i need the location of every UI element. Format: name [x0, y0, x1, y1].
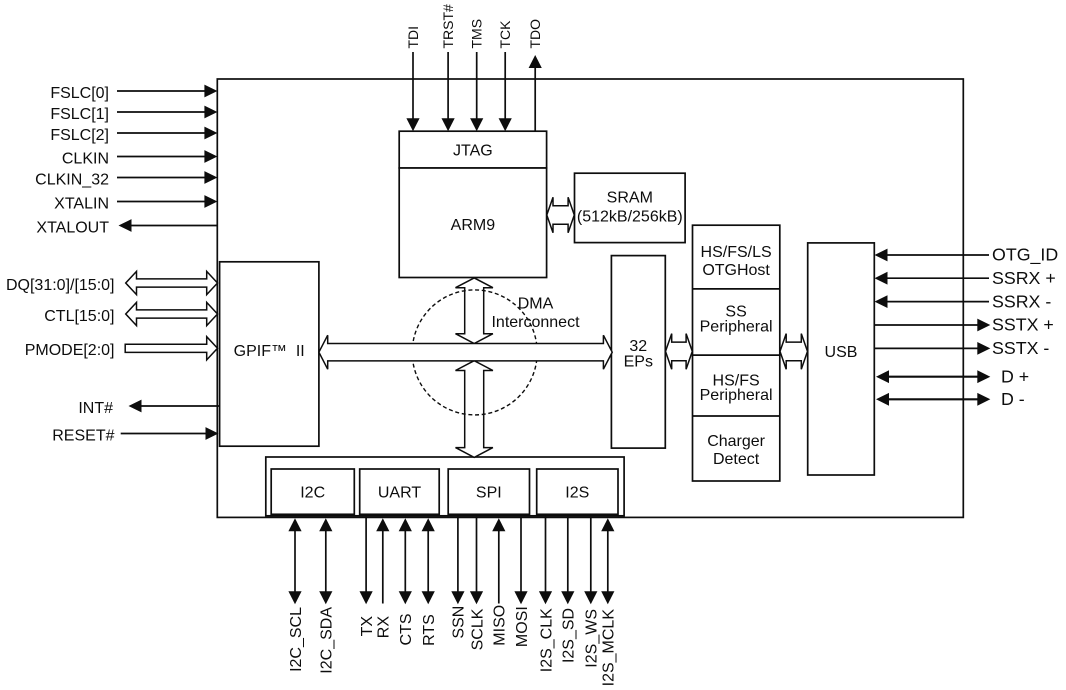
svg-text:D -: D - — [1001, 389, 1025, 409]
svg-text:SSTX +: SSTX + — [992, 315, 1054, 335]
wire D - — [876, 389, 1025, 409]
svg-text:I2S_WS: I2S_WS — [584, 609, 601, 668]
wire SSN — [451, 517, 468, 639]
port CTL[15:0] — [44, 302, 217, 325]
wire D + — [876, 366, 1029, 386]
block USB PHY column — [693, 225, 780, 481]
svg-text:SRAM: SRAM — [607, 189, 653, 206]
wire SSRX - — [875, 291, 1052, 311]
peripherals container — [266, 457, 624, 516]
svg-text:TX: TX — [359, 616, 376, 637]
svg-text:JTAG: JTAG — [453, 142, 493, 159]
svg-text:TCK: TCK — [497, 20, 513, 49]
svg-text:SCLK: SCLK — [469, 608, 486, 650]
chip boundary box — [217, 79, 963, 517]
wire MISO — [492, 518, 509, 645]
block SRAM — [575, 173, 686, 242]
wire XTALIN — [54, 195, 217, 212]
svg-text:OTG_ID: OTG_ID — [992, 245, 1058, 266]
block 32 EPs — [611, 256, 665, 449]
wire RTS — [421, 518, 438, 646]
svg-text:Charger: Charger — [707, 433, 765, 450]
svg-text:FSLC[2]: FSLC[2] — [50, 127, 109, 144]
wire FSLC[2] — [50, 127, 217, 144]
svg-text:Peripheral: Peripheral — [700, 318, 773, 335]
wire I2S_WS — [584, 517, 601, 668]
svg-text:SPI: SPI — [476, 484, 502, 501]
svg-text:CLKIN: CLKIN — [62, 150, 109, 167]
wire OTG_ID — [875, 245, 1059, 266]
block I2C — [271, 469, 354, 514]
svg-text:DMA: DMA — [518, 295, 554, 312]
svg-text:TDI: TDI — [405, 26, 421, 49]
block JTAG — [399, 131, 546, 168]
svg-text:GPIF™ II: GPIF™ II — [234, 343, 305, 360]
wire I2S_MCLK — [601, 518, 618, 686]
svg-text:UART: UART — [378, 484, 421, 501]
wire TRST# — [440, 4, 456, 131]
wire TMS — [469, 19, 485, 131]
bus 32 EPs to USB PHY column — [666, 334, 693, 370]
wire RX — [376, 518, 393, 638]
svg-text:I2C: I2C — [300, 484, 325, 501]
wire INT# — [78, 400, 219, 417]
wire FSLC[0] — [50, 85, 217, 102]
svg-text:ARM9: ARM9 — [451, 217, 496, 234]
wire SSTX + — [875, 315, 1054, 335]
svg-text:MOSI: MOSI — [514, 606, 531, 647]
svg-text:I2C_SCL: I2C_SCL — [288, 607, 305, 672]
svg-text:RTS: RTS — [421, 614, 438, 646]
svg-text:RX: RX — [376, 616, 393, 639]
wire TDI — [405, 26, 421, 131]
svg-text:XTALIN: XTALIN — [54, 195, 109, 212]
svg-text:Peripheral: Peripheral — [700, 387, 773, 404]
wire I2C_SCL — [288, 518, 305, 672]
wire SCLK — [469, 517, 486, 651]
wire FSLC[1] — [50, 106, 217, 123]
svg-text:TDO: TDO — [527, 19, 543, 49]
wire TCK — [497, 20, 513, 131]
svg-text:PMODE[2:0]: PMODE[2:0] — [25, 342, 115, 359]
wire I2C_SDA — [319, 518, 336, 673]
svg-text:TRST#: TRST# — [440, 4, 456, 49]
block ARM9 — [399, 168, 546, 278]
wire SSRX + — [875, 268, 1056, 288]
wire TX — [359, 517, 376, 637]
wire XTALOUT — [36, 219, 217, 236]
wire TDO — [527, 19, 543, 131]
wire I2S_CLK — [538, 517, 555, 672]
svg-text:I2S_MCLK: I2S_MCLK — [601, 609, 618, 687]
svg-text:HS/FS/LS: HS/FS/LS — [701, 244, 772, 261]
svg-text:INT#: INT# — [78, 400, 113, 417]
svg-text:EPs: EPs — [624, 353, 653, 370]
wire CLKIN_32 — [35, 171, 217, 188]
svg-text:OTGHost: OTGHost — [702, 262, 770, 279]
svg-text:USB: USB — [825, 344, 858, 361]
svg-text:SSTX -: SSTX - — [992, 338, 1049, 358]
svg-text:CTL[15:0]: CTL[15:0] — [44, 308, 114, 325]
bus ARM9 to DMA — [456, 278, 493, 344]
svg-text:DQ[31:0]/[15:0]: DQ[31:0]/[15:0] — [6, 277, 115, 294]
block GPIF II — [220, 262, 319, 446]
DMA interconnect dashed circle — [412, 290, 537, 415]
block USB — [808, 243, 875, 475]
svg-text:RESET#: RESET# — [52, 427, 114, 444]
svg-text:CTS: CTS — [398, 614, 415, 646]
wire CLKIN — [62, 150, 218, 167]
svg-text:(512kB/256kB): (512kB/256kB) — [577, 208, 683, 225]
svg-text:I2C_SDA: I2C_SDA — [319, 607, 336, 674]
wire MOSI — [514, 517, 531, 647]
svg-text:CLKIN_32: CLKIN_32 — [35, 171, 109, 188]
svg-text:D +: D + — [1001, 366, 1029, 386]
port PMODE[2:0] — [25, 337, 218, 360]
bus ARM9 to SRAM — [547, 197, 575, 233]
svg-text:FSLC[1]: FSLC[1] — [50, 106, 109, 123]
port DQ[31:0]/[15:0] — [6, 271, 218, 294]
svg-text:FSLC[0]: FSLC[0] — [50, 85, 109, 102]
svg-text:SSRX -: SSRX - — [992, 291, 1051, 311]
svg-text:XTALOUT: XTALOUT — [36, 219, 109, 236]
bus USB PHY column to USB — [780, 334, 808, 370]
block I2S — [537, 469, 618, 514]
svg-text:Detect: Detect — [713, 451, 760, 468]
svg-text:I2S_CLK: I2S_CLK — [538, 608, 555, 672]
bus GPIF to 32 EPs — [319, 335, 612, 369]
svg-text:I2S: I2S — [565, 484, 589, 501]
block SPI — [448, 469, 529, 514]
bus DMA to peripherals — [456, 361, 493, 458]
svg-text:SSN: SSN — [451, 606, 468, 639]
wire I2S_SD — [561, 517, 578, 663]
svg-text:SSRX +: SSRX + — [992, 268, 1056, 288]
svg-text:Interconnect: Interconnect — [491, 314, 580, 331]
block UART — [360, 469, 440, 514]
wire SSTX - — [875, 338, 1050, 358]
svg-text:TMS: TMS — [469, 19, 485, 49]
wire CTS — [398, 518, 415, 645]
svg-text:I2S_SD: I2S_SD — [561, 608, 578, 663]
wire RESET# — [52, 427, 218, 444]
svg-text:MISO: MISO — [492, 605, 509, 646]
label DMA Interconnect — [491, 295, 580, 331]
